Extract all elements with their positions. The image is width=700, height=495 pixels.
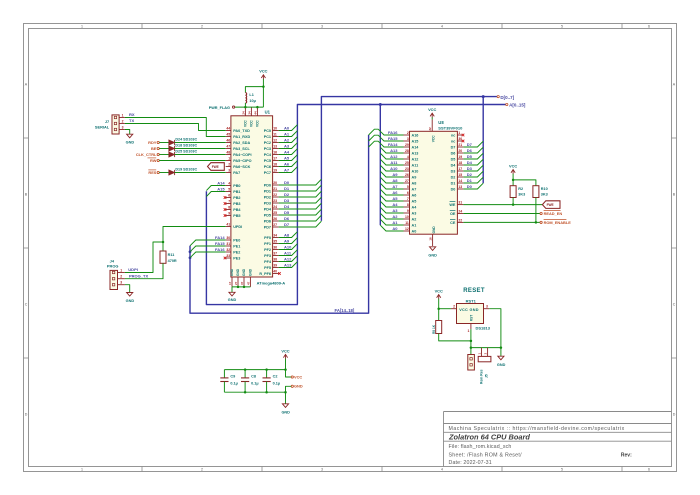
ground symbol at J7	[127, 134, 133, 138]
svg-text:D0: D0	[467, 184, 473, 189]
hierarchical label READ_EN	[540, 212, 542, 214]
svg-text:U8: U8	[438, 120, 444, 125]
U1 pin 1 PA5~CIPO	[226, 160, 231, 162]
U8 pin 25 A11	[404, 164, 410, 166]
bus D[0..7] end circle	[497, 96, 499, 98]
svg-text:UPDI: UPDI	[233, 225, 242, 229]
svg-text:A11: A11	[412, 164, 419, 168]
svg-text:C8: C8	[251, 375, 256, 379]
U1 pin 18 PC6	[273, 166, 279, 168]
U8 pin 3 A15	[404, 140, 410, 142]
wire A13 from A bus to U8	[380, 147, 403, 153]
wire A3 from PC3 to A bus	[279, 143, 298, 149]
frame row ticks	[24, 137, 29, 139]
svg-text:Zolatron 64 CPU Board: Zolatron 64 CPU Board	[448, 433, 530, 442]
svg-text:A2: A2	[412, 218, 417, 222]
svg-text:3: 3	[228, 169, 230, 173]
svg-text:D6: D6	[467, 148, 473, 153]
wire R9 to reset net	[439, 334, 471, 341]
wire U1 ground bus	[232, 286, 250, 288]
wire power rail into U1 pins	[235, 106, 264, 108]
wire to hierarchical label VCC	[286, 370, 292, 377]
bus FA junction dots	[189, 250, 192, 253]
svg-text:PB4: PB4	[233, 208, 241, 212]
svg-text:8: 8	[228, 206, 230, 210]
svg-text:A6: A6	[412, 194, 417, 198]
svg-text:23: 23	[273, 199, 277, 203]
U8 pin 2 A16	[404, 134, 410, 136]
svg-text:1: 1	[81, 25, 83, 29]
U1 pin 16 PC4	[273, 154, 279, 156]
U1 pin 4 PB0	[226, 185, 231, 187]
svg-text:38: 38	[273, 258, 277, 262]
svg-text:23: 23	[405, 167, 409, 171]
svg-text:RESET: RESET	[463, 288, 485, 294]
U8 pin 10 A2	[404, 218, 410, 220]
U8 pin 29 A14	[404, 146, 410, 148]
svg-text:4: 4	[228, 182, 230, 186]
svg-text:27: 27	[273, 223, 277, 227]
svg-text:D[0..7]: D[0..7]	[500, 95, 514, 100]
svg-text:1: 1	[81, 468, 83, 472]
svg-text:D1: D1	[451, 182, 456, 186]
U8 pin 28 A13	[404, 152, 410, 154]
bus D[0..7] horizontal	[321, 97, 497, 221]
svg-text:D24 SD103C: D24 SD103C	[175, 138, 197, 142]
svg-text:0.1µ: 0.1µ	[273, 382, 280, 386]
svg-text:FA16: FA16	[215, 247, 225, 252]
svg-text:SST39VF010: SST39VF010	[438, 126, 463, 131]
svg-text:PC4: PC4	[264, 153, 272, 157]
U1 pin 38 PF4	[273, 261, 279, 263]
svg-text:A5: A5	[392, 196, 398, 201]
svg-text:Date: 2022-07-31: Date: 2022-07-31	[449, 460, 492, 466]
wire to U1 ground symbol	[231, 287, 233, 292]
svg-text:25: 25	[273, 211, 277, 215]
svg-text:44: 44	[253, 111, 257, 115]
svg-text:44: 44	[226, 127, 230, 131]
svg-text:D2: D2	[451, 176, 456, 180]
svg-text:A8: A8	[284, 232, 290, 237]
U1 pin 37 PF3	[273, 255, 279, 257]
svg-text:VCC: VCC	[432, 135, 436, 142]
diode D24 SD103C	[169, 140, 175, 145]
wire A14 from PB0 to A bus	[206, 186, 225, 191]
wire A3 from A bus to U8	[380, 207, 403, 213]
svg-text:1: 1	[228, 157, 230, 161]
svg-text:47: 47	[246, 281, 250, 285]
wire D1 to D bus	[463, 177, 483, 183]
svg-text:470R: 470R	[168, 259, 177, 263]
U8 pin 13 D0	[457, 188, 463, 190]
wire D6 to D bus	[463, 147, 483, 153]
svg-text:PE2: PE2	[233, 251, 240, 255]
reset button SW1	[478, 356, 491, 361]
svg-text:GND: GND	[126, 141, 135, 145]
svg-text:A7: A7	[284, 167, 290, 172]
wire CLK_CTRL to diode D25	[159, 154, 169, 156]
svg-text:A10: A10	[284, 244, 292, 249]
capacitor rails	[224, 369, 285, 371]
svg-text:R9 1K: R9 1K	[432, 324, 436, 334]
wire A0 from PC0 to A bus	[279, 125, 298, 131]
svg-text:PC3: PC3	[264, 147, 271, 151]
svg-text:VCC: VCC	[428, 107, 436, 112]
svg-text:PE3: PE3	[233, 257, 240, 261]
connector J7 SERIAL	[112, 115, 119, 134]
wire A0 from A bus to U8	[380, 225, 403, 231]
hierarchical label RW	[157, 159, 159, 161]
resistor R9 1K	[438, 309, 440, 321]
U8 body	[410, 131, 458, 234]
svg-text:PB0: PB0	[233, 184, 240, 188]
svg-text:A3: A3	[284, 143, 290, 148]
svg-text:File: flash_rom.kicad_sch: File: flash_rom.kicad_sch	[449, 444, 512, 450]
U1 pin 12 PC2	[273, 142, 279, 144]
U1 pin 34 PF0	[273, 237, 279, 239]
svg-text:UDPI: UDPI	[128, 267, 138, 272]
svg-text:27: 27	[405, 179, 409, 183]
svg-text:RDY: RDY	[148, 140, 157, 145]
svg-text:D18 SD103C: D18 SD103C	[175, 144, 197, 148]
U1 bottom ground pin stubs	[231, 277, 233, 287]
ground symbol at capacitors	[282, 404, 288, 408]
svg-text:A4: A4	[392, 202, 398, 207]
svg-text:RST: RST	[469, 315, 473, 321]
svg-text:16: 16	[273, 151, 277, 155]
svg-text:A0: A0	[392, 226, 398, 231]
svg-text:9: 9	[228, 212, 230, 216]
wire hierarchical GND to rail	[286, 386, 292, 392]
global label FWE at PA6	[208, 163, 225, 171]
svg-text:A8: A8	[392, 178, 398, 183]
U8 GND pin	[432, 234, 434, 246]
svg-text:28: 28	[405, 149, 409, 153]
svg-text:PROG: PROG	[107, 264, 118, 269]
wire reset net	[470, 329, 472, 354]
U1 pin 26 PD6	[273, 220, 279, 222]
svg-text:BE: BE	[151, 146, 157, 151]
U1 body	[231, 116, 273, 277]
RST1 pin 1	[470, 324, 472, 330]
wire BE to diode D18	[159, 148, 169, 150]
svg-text:A3: A3	[392, 208, 398, 213]
U1 pin 33 PE3	[226, 257, 231, 259]
svg-text:12: 12	[273, 139, 277, 143]
resistor R2 3K3	[510, 186, 516, 198]
svg-text:36: 36	[273, 246, 277, 250]
svg-text:24: 24	[241, 111, 245, 115]
wire D5 from PD5 to D bus	[279, 209, 322, 215]
svg-text:A2: A2	[284, 137, 290, 142]
U1 unused pin crosses PB2-PB5, PE3	[224, 196, 227, 199]
wire A12 from A bus to U8	[380, 153, 403, 159]
wire A8 from PF0 to A bus	[279, 232, 298, 238]
svg-text:Rem Res: Rem Res	[480, 369, 484, 384]
wire D0 from PD0 to D bus	[279, 179, 322, 185]
svg-text:VCC: VCC	[244, 120, 248, 127]
wire A15 from PB1 to A bus	[206, 192, 225, 197]
svg-text:31: 31	[226, 242, 230, 246]
svg-text:10: 10	[273, 127, 277, 131]
svg-text:A10: A10	[390, 166, 398, 171]
svg-text:PROG_TX: PROG_TX	[129, 273, 148, 278]
ground symbol at RST1	[498, 356, 504, 360]
wire R11 to J4 pin2 PROG_TX	[125, 263, 163, 278]
U8 pin 21 D7	[457, 146, 463, 148]
U1 pin 11 PC1	[273, 136, 279, 138]
svg-text:FWE: FWE	[212, 165, 219, 169]
U8 pin 22 CE	[457, 221, 463, 223]
svg-text:6: 6	[648, 468, 650, 472]
wire D2 to D bus	[463, 171, 483, 177]
svg-text:D19 SD103C: D19 SD103C	[175, 168, 197, 172]
svg-text:RX: RX	[129, 112, 135, 117]
hierarchical label VCC	[291, 376, 293, 378]
wire A2 from PC2 to A bus	[279, 137, 298, 143]
svg-text:2: 2	[201, 468, 203, 472]
svg-text:6: 6	[648, 25, 650, 29]
svg-text:PA2_SDA: PA2_SDA	[233, 141, 250, 145]
power flag PWR_FLAG	[233, 106, 235, 108]
svg-text:GND: GND	[432, 226, 436, 234]
bus junction A at U8	[379, 103, 382, 106]
wire diode D19 to U1	[175, 172, 226, 174]
svg-text:PF4: PF4	[264, 260, 272, 264]
RST1 pin 3	[484, 308, 490, 310]
reset button stubs	[481, 348, 483, 357]
U1 pin 44 PA0_TXD	[226, 130, 231, 132]
wire A10 from PF2 to A bus	[279, 244, 298, 250]
svg-text:3: 3	[122, 125, 124, 129]
svg-text:21: 21	[273, 187, 277, 191]
U1 pin 27 PD7	[273, 226, 279, 228]
bus D vertical at U8	[482, 97, 484, 184]
svg-text:45: 45	[226, 133, 230, 137]
wire FA16 jog to FA bus	[369, 129, 404, 135]
wire A11 from A bus to U8	[380, 159, 403, 165]
svg-text:22: 22	[458, 219, 462, 223]
wire D7 to D bus	[463, 141, 483, 147]
U8 pin 5 A7	[404, 188, 410, 190]
svg-text:5: 5	[561, 468, 563, 472]
U8 pin 4 A12	[404, 158, 410, 160]
U8 pin 20 D6	[457, 152, 463, 154]
U1 pin 45 PA1_RXD	[226, 136, 231, 138]
hierarchical label RDY	[157, 141, 159, 143]
wire UPDI from U1 to R11	[163, 227, 226, 243]
svg-text:READ_EN: READ_EN	[544, 211, 563, 216]
svg-text:GND: GND	[249, 268, 253, 276]
wire R10 to CE	[535, 198, 537, 223]
svg-text:PE0: PE0	[233, 239, 240, 243]
svg-text:GND: GND	[281, 410, 290, 414]
svg-text:C2: C2	[273, 375, 278, 379]
svg-text:R11: R11	[168, 253, 175, 257]
wire RES to diode D19	[159, 172, 169, 174]
resistor R10 3K3	[533, 186, 539, 198]
bus A[0..15] end circle	[506, 103, 508, 105]
wire A7 from PC7 to A bus	[279, 167, 298, 173]
wire A4 from PC4 to A bus	[279, 149, 298, 155]
U8 pin 14 D1	[457, 182, 463, 184]
svg-text:20: 20	[273, 181, 277, 185]
hierarchical label RES	[157, 171, 159, 173]
svg-text:FA[14..18]: FA[14..18]	[335, 308, 355, 313]
svg-text:FA14: FA14	[215, 235, 225, 240]
svg-text:PF3: PF3	[264, 254, 271, 258]
svg-text:11: 11	[273, 133, 277, 137]
svg-text:A9: A9	[392, 172, 398, 177]
wire rail to ground symbol	[285, 392, 287, 404]
svg-text:5: 5	[407, 185, 409, 189]
svg-text:L1: L1	[249, 93, 253, 97]
svg-text:A9: A9	[284, 238, 290, 243]
U1 pin 25 PD5	[273, 214, 279, 216]
svg-text:J5: J5	[485, 374, 489, 378]
connector J4 PROG	[110, 270, 118, 289]
U1 top power pin stubs	[244, 107, 246, 116]
svg-text:PD0: PD0	[264, 184, 271, 188]
svg-text:DS1813: DS1813	[476, 325, 491, 330]
svg-text:VCC: VCC	[259, 69, 267, 74]
U8 pin 17 D3	[457, 170, 463, 172]
U1 pin 21 PD1	[273, 190, 279, 192]
svg-text:VCC: VCC	[256, 120, 260, 127]
svg-text:4: 4	[407, 155, 409, 159]
svg-text:nc: nc	[451, 134, 455, 138]
svg-text:A14: A14	[412, 146, 420, 150]
U1 pin 20 PD0	[273, 184, 279, 186]
U1 pin 10 PC0	[273, 130, 279, 132]
wire J4 pin3 to ground	[125, 285, 130, 293]
svg-text:37: 37	[240, 281, 244, 285]
svg-text:GND: GND	[230, 268, 234, 276]
U1 pin 22 PD2	[273, 196, 279, 198]
wire A6 from PC6 to A bus	[279, 161, 298, 167]
svg-text:13: 13	[458, 185, 462, 189]
svg-text:A5: A5	[412, 200, 417, 204]
svg-text:D0: D0	[284, 180, 290, 185]
svg-text:PA0_TXD: PA0_TXD	[233, 129, 250, 133]
U1 pin 8 PB4	[226, 209, 231, 211]
svg-text:RW: RW	[150, 158, 157, 163]
svg-text:17: 17	[273, 157, 277, 161]
svg-text:FA14: FA14	[388, 142, 398, 147]
svg-text:FA16: FA16	[388, 130, 398, 135]
wire A1 from A bus to U8	[380, 219, 403, 225]
svg-text:2: 2	[228, 163, 230, 167]
svg-text:GND: GND	[126, 299, 135, 303]
svg-text:6: 6	[228, 194, 230, 198]
capacitor C9 0.1µ	[223, 370, 225, 378]
svg-text:PF2: PF2	[264, 248, 271, 252]
svg-text:A0: A0	[284, 125, 290, 130]
svg-text:A5: A5	[284, 155, 290, 160]
svg-text:A0: A0	[412, 230, 417, 234]
svg-text:GND: GND	[497, 363, 506, 367]
svg-text:2: 2	[407, 131, 409, 135]
wire WE to FWE global label	[463, 204, 542, 206]
svg-text:PF1: PF1	[264, 242, 271, 246]
svg-text:A6: A6	[284, 161, 290, 166]
svg-text:ROM_ENABLE: ROM_ENABLE	[544, 220, 572, 225]
svg-text:D7: D7	[284, 222, 290, 227]
U8 pin 1 nc	[457, 134, 462, 136]
wire A9 from A bus to U8	[380, 171, 403, 177]
U8 pin 27 A8	[404, 182, 410, 184]
svg-text:1: 1	[122, 113, 124, 117]
svg-text:FA15: FA15	[215, 241, 225, 246]
wire A1 from PC1 to A bus	[279, 131, 298, 137]
svg-text:Machina Speculatrix :: https:/: Machina Speculatrix :: https://mansfield…	[449, 426, 625, 432]
svg-text:PC6: PC6	[264, 165, 271, 169]
svg-text:15: 15	[458, 173, 462, 177]
svg-text:D0: D0	[451, 188, 456, 192]
svg-text:R10: R10	[541, 187, 548, 191]
wire A13 from PF5 to A bus	[279, 262, 298, 268]
U8 pin 30 nc	[457, 140, 462, 142]
wire FA16 from U1 to FA bus	[190, 252, 226, 258]
wire RST1 pin3 to ground	[489, 309, 501, 357]
svg-text:PC1: PC1	[264, 135, 271, 139]
U1 pin 35 PF1	[273, 243, 279, 245]
diode D18 SD103C	[169, 146, 175, 151]
wire D1 from PD1 to D bus	[279, 185, 322, 191]
svg-text:PWR_FLAG: PWR_FLAG	[209, 106, 230, 110]
svg-text:19: 19	[273, 169, 277, 173]
svg-text:PF0: PF0	[264, 236, 271, 240]
svg-text:A6: A6	[392, 190, 398, 195]
svg-text:D7: D7	[451, 146, 456, 150]
svg-text:7: 7	[407, 197, 409, 201]
ground symbol at U8	[430, 247, 436, 251]
wire FA15 from U1 to FA bus	[190, 246, 226, 252]
svg-text:D6: D6	[284, 216, 290, 221]
U1 pin 5 PB1	[226, 191, 231, 193]
svg-text:6: 6	[407, 191, 409, 195]
bus A vertical at U8	[379, 105, 381, 226]
wire RW to U1	[159, 160, 225, 162]
svg-text:PA7: PA7	[233, 171, 240, 175]
svg-text:PC2: PC2	[264, 141, 271, 145]
svg-text:GND: GND	[236, 268, 240, 276]
svg-text:41: 41	[226, 223, 230, 227]
svg-text:0.1µ: 0.1µ	[230, 382, 237, 386]
svg-text:PE1: PE1	[233, 245, 240, 249]
bus junction D at U8	[482, 95, 485, 98]
U8 pin 11 A1	[404, 224, 410, 226]
svg-text:A14: A14	[217, 180, 225, 185]
svg-text:ATmega4809-A: ATmega4809-A	[257, 280, 286, 285]
svg-text:A15: A15	[412, 140, 419, 144]
svg-text:2: 2	[201, 25, 203, 29]
svg-text:PB5: PB5	[233, 214, 240, 218]
svg-text:VCC: VCC	[250, 120, 254, 127]
svg-text:21: 21	[458, 143, 462, 147]
U1 pin 40 R_PF6	[273, 273, 279, 275]
U1 pin 23 PD3	[273, 202, 279, 204]
svg-text:GND: GND	[428, 253, 437, 257]
svg-text:PD1: PD1	[264, 190, 271, 194]
wire A8 from A bus to U8	[380, 177, 403, 183]
svg-text:CLK_CTRL: CLK_CTRL	[136, 152, 157, 157]
U8 pin 9 A3	[404, 212, 410, 214]
svg-text:32: 32	[226, 248, 230, 252]
svg-text:PA1_RXD: PA1_RXD	[233, 135, 250, 139]
U8 pin 24 OE	[457, 213, 463, 215]
svg-text:30: 30	[458, 137, 462, 141]
